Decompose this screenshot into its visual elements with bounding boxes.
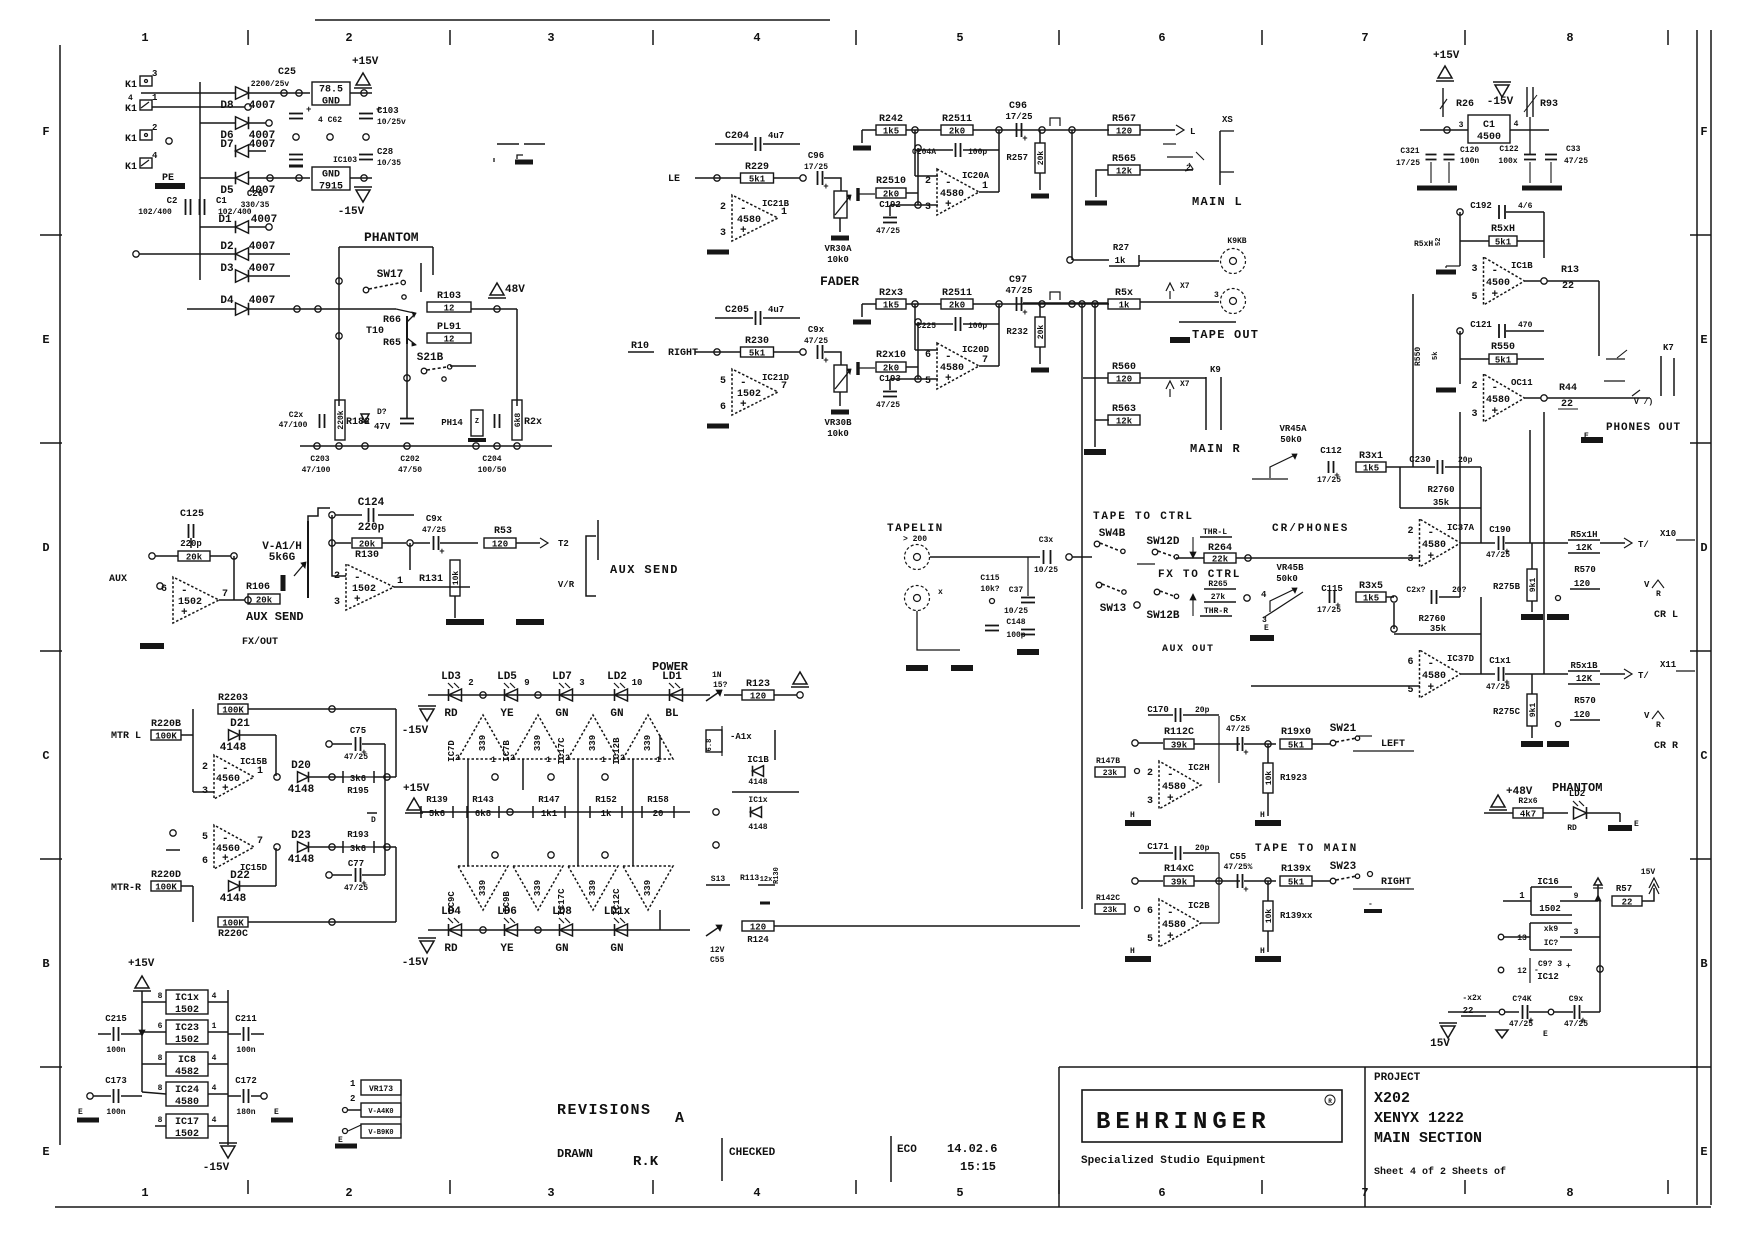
wire c173 w2 bbox=[121, 1095, 142, 1097]
row tick left bbox=[40, 442, 62, 444]
C230 label bbox=[1409, 455, 1431, 465]
svg-text:339: 339 bbox=[533, 735, 543, 751]
svg-text:C: C bbox=[42, 749, 49, 763]
svg-text:R2x10: R2x10 bbox=[876, 350, 906, 361]
resistor R123 bbox=[742, 679, 774, 702]
connector K1 pin 4 bbox=[125, 162, 137, 173]
C28 value bbox=[377, 159, 401, 168]
svg-text:LD5: LD5 bbox=[497, 671, 517, 683]
row tick right bbox=[1690, 650, 1711, 652]
svg-text:220k: 220k bbox=[337, 410, 346, 429]
wire c77 wl bbox=[332, 874, 352, 876]
wire led row bottom bbox=[428, 929, 690, 931]
C190 value bbox=[1486, 551, 1510, 560]
svg-text:C124: C124 bbox=[358, 497, 385, 509]
C205 wires bbox=[715, 317, 800, 319]
wire to fader RIGHT bbox=[824, 352, 841, 365]
rev letter A bbox=[675, 1110, 684, 1127]
resistor R158 bbox=[642, 795, 674, 819]
svg-text:D?: D? bbox=[377, 408, 387, 417]
svg-text:C192: C192 bbox=[1470, 201, 1492, 211]
svg-text:20k: 20k bbox=[256, 596, 273, 606]
svg-text:+: + bbox=[354, 594, 361, 606]
net R10 underline bbox=[628, 351, 654, 353]
IC16 label bbox=[1537, 877, 1559, 887]
resistor R1390 bbox=[1280, 864, 1312, 888]
capacitor C1 bbox=[200, 199, 205, 215]
PHONES OUT label bbox=[1606, 422, 1681, 434]
REVISIONS title bbox=[557, 1102, 652, 1119]
R570a floating bbox=[1570, 565, 1600, 589]
svg-text:15V: 15V bbox=[1430, 1038, 1450, 1050]
gnd ph1 bbox=[1417, 186, 1437, 191]
C62 label bbox=[318, 116, 342, 125]
R2760a part bbox=[1426, 485, 1456, 508]
stack arrows bbox=[139, 1030, 145, 1036]
wire mtr r wire bbox=[181, 885, 193, 887]
svg-text:IC2B: IC2B bbox=[1188, 901, 1210, 911]
-15V br bbox=[1430, 1023, 1457, 1050]
column number 8 bottom bbox=[1566, 1186, 1573, 1200]
gnd stack l bbox=[77, 1118, 99, 1123]
svg-text:7915: 7915 bbox=[319, 182, 343, 193]
resistor R2x6 4k7 bbox=[1513, 808, 1543, 820]
capacitor C36 bbox=[1044, 550, 1051, 564]
svg-text:17/25: 17/25 bbox=[1317, 476, 1341, 485]
wire c172 w2 bbox=[251, 1095, 261, 1097]
svg-text:> 200: > 200 bbox=[903, 535, 927, 544]
svg-text:2: 2 bbox=[345, 1186, 352, 1200]
H lbl 4 bbox=[1130, 947, 1135, 956]
switch SW12D bbox=[1146, 536, 1179, 559]
node rail n6 bbox=[494, 443, 500, 449]
IC16 inverter a bbox=[1519, 887, 1578, 915]
svg-text:6k8: 6k8 bbox=[475, 809, 491, 819]
comparator IC12C bottom bbox=[612, 866, 673, 916]
svg-text:4580: 4580 bbox=[1162, 920, 1186, 931]
wire r139xx top bbox=[1267, 881, 1269, 901]
n in LE bbox=[714, 175, 720, 181]
K1 pin3 box bbox=[140, 69, 157, 86]
svg-text:REVISIONS: REVISIONS bbox=[557, 1102, 652, 1119]
ic2b fb bbox=[1201, 881, 1219, 923]
C26 label bbox=[247, 189, 263, 199]
row tick right bbox=[1690, 858, 1711, 860]
svg-text:R2203: R2203 bbox=[218, 693, 248, 704]
C2 label bbox=[167, 196, 178, 206]
svg-text:L: L bbox=[1190, 127, 1195, 137]
svg-text:2: 2 bbox=[350, 1094, 355, 1104]
svg-text:5k1: 5k1 bbox=[749, 175, 766, 185]
C204 wires bbox=[715, 143, 800, 145]
svg-text:R158: R158 bbox=[647, 795, 669, 805]
C211 label bbox=[235, 1014, 257, 1024]
row letter D left bbox=[42, 541, 49, 555]
svg-text:5k1: 5k1 bbox=[1495, 238, 1512, 248]
svg-text:20p: 20p bbox=[1195, 706, 1210, 715]
wire ld2 drop bbox=[1619, 813, 1621, 822]
connector K1 pin 2 bbox=[125, 134, 137, 145]
resistor R567 bbox=[1108, 114, 1140, 137]
n l2 bbox=[535, 692, 541, 698]
wire c24k w2 bbox=[1554, 1011, 1573, 1013]
gnd pha stem bbox=[1446, 266, 1460, 268]
svg-text:C125: C125 bbox=[180, 509, 204, 520]
wire rfb1 l RIGHT bbox=[862, 303, 876, 305]
wire rv top RIGHT bbox=[1039, 304, 1041, 317]
svg-text:R230: R230 bbox=[745, 336, 769, 347]
wire sw21 in bbox=[1312, 743, 1330, 745]
s21b contact bbox=[442, 377, 446, 381]
diode D21 bbox=[220, 718, 250, 754]
svg-text:X11: X11 bbox=[1660, 660, 1677, 670]
C1 label bbox=[216, 196, 227, 206]
S13 part bbox=[706, 867, 781, 903]
svg-text:1k: 1k bbox=[601, 809, 612, 819]
svg-text:C26: C26 bbox=[247, 189, 263, 199]
net stub lines top bbox=[497, 143, 545, 145]
C9x value bbox=[422, 526, 446, 535]
svg-text:5: 5 bbox=[202, 832, 208, 843]
THR-L net bbox=[1200, 528, 1232, 537]
n c1 bbox=[492, 774, 498, 780]
aux op in bbox=[157, 583, 163, 589]
resistor R105 bbox=[178, 551, 210, 563]
svg-text:R567: R567 bbox=[1112, 114, 1136, 125]
ic pins b bbox=[158, 1022, 217, 1031]
svg-text:6.8: 6.8 bbox=[706, 739, 714, 752]
n in RIGHT bbox=[714, 349, 720, 355]
svg-text:3: 3 bbox=[334, 597, 340, 608]
title divider v2 bbox=[890, 1136, 892, 1182]
pot VR45A bbox=[1252, 424, 1307, 479]
svg-text:K1: K1 bbox=[125, 80, 137, 91]
n lad1 bbox=[507, 809, 513, 815]
svg-text:FX/OUT: FX/OUT bbox=[242, 636, 278, 648]
svg-text:35k: 35k bbox=[1433, 498, 1450, 508]
RCA jack K9KB bbox=[1221, 237, 1247, 274]
svg-text:7: 7 bbox=[222, 589, 228, 600]
R275B label bbox=[1493, 582, 1521, 592]
svg-text:3: 3 bbox=[202, 786, 208, 797]
gnd rfb1 LE bbox=[853, 146, 871, 151]
C25 value bbox=[251, 80, 290, 89]
column tick top bbox=[247, 30, 249, 45]
svg-text:R130: R130 bbox=[355, 550, 379, 561]
gnd vr173 bbox=[335, 1144, 357, 1149]
svg-text:2: 2 bbox=[455, 754, 460, 763]
diode D6 bbox=[220, 117, 275, 142]
n c6 bbox=[602, 852, 608, 858]
wire d2 out bbox=[249, 253, 290, 255]
svg-text:-: - bbox=[354, 572, 361, 584]
svg-text:4580: 4580 bbox=[1486, 395, 1510, 406]
wire aux left vert bbox=[332, 515, 346, 576]
resistor PL91 bbox=[427, 322, 471, 345]
node reg out bbox=[361, 90, 367, 96]
gnd phones bbox=[1581, 437, 1603, 443]
svg-text:22k: 22k bbox=[1212, 555, 1229, 565]
C33 value bbox=[1564, 157, 1588, 166]
svg-text:4148: 4148 bbox=[748, 778, 767, 787]
svg-text:ECO: ECO bbox=[897, 1144, 917, 1156]
PH14 label bbox=[441, 418, 463, 428]
svg-text:+: + bbox=[1492, 406, 1499, 418]
VR label aux bbox=[558, 580, 575, 590]
svg-text:10/25: 10/25 bbox=[1004, 607, 1028, 616]
wire tape in wire bbox=[930, 556, 1040, 558]
wire stack left joins bbox=[142, 1001, 166, 1003]
svg-text:THR-R: THR-R bbox=[1204, 607, 1228, 616]
svg-text:20p: 20p bbox=[1195, 844, 1210, 853]
svg-text:R2760: R2760 bbox=[1427, 485, 1454, 495]
gnd rfb1 RIGHT bbox=[853, 320, 871, 325]
svg-text:47/25: 47/25 bbox=[1005, 286, 1032, 296]
capacitor C75 bbox=[356, 737, 367, 758]
resistor R139 bbox=[421, 795, 453, 819]
FX OUT label bbox=[242, 636, 278, 648]
svg-text:R65: R65 bbox=[383, 338, 401, 349]
n ph box 2 bbox=[1135, 907, 1140, 912]
n lb1 bbox=[480, 927, 486, 933]
diode D20 bbox=[288, 760, 315, 796]
wire phantom bottom rail bbox=[300, 445, 552, 447]
column number 2 top bbox=[345, 31, 352, 45]
svg-text:R3x1: R3x1 bbox=[1359, 451, 1383, 462]
wire r29 w2 bbox=[1505, 1011, 1519, 1013]
fader VR30A body bbox=[834, 191, 851, 218]
E ld2 bbox=[1634, 820, 1639, 829]
column number 5 bottom bbox=[956, 1186, 963, 1200]
svg-text:R550: R550 bbox=[1491, 342, 1515, 353]
wire ic16b inw bbox=[1504, 936, 1530, 938]
column tick bottom bbox=[449, 1180, 451, 1194]
wire tm wire2 bbox=[1194, 743, 1240, 745]
svg-text:-15V: -15V bbox=[402, 957, 429, 969]
svg-text:IC1B: IC1B bbox=[1511, 261, 1533, 271]
IC1x label bbox=[748, 796, 767, 805]
svg-text:D8: D8 bbox=[220, 100, 234, 112]
svg-text:RD: RD bbox=[444, 943, 458, 955]
C77 value bbox=[344, 884, 368, 893]
misc vert bbox=[774, 730, 776, 760]
tp2 bbox=[327, 134, 333, 140]
wire ac d1 bbox=[200, 226, 236, 228]
wire cmp2 out bbox=[522, 759, 524, 790]
svg-text:K1: K1 bbox=[125, 104, 137, 115]
IC37B label bbox=[1447, 654, 1475, 664]
n c2 bbox=[548, 774, 554, 780]
resistor R106 bbox=[246, 582, 280, 606]
gnd ic2h l bbox=[1125, 820, 1151, 826]
wire mtr l wire bbox=[181, 734, 193, 736]
sw23 circle bbox=[1368, 872, 1373, 877]
svg-text:X7: X7 bbox=[1180, 380, 1190, 389]
MAIN R label bbox=[1190, 442, 1241, 456]
wire tm wire1 bbox=[1138, 742, 1163, 744]
svg-text:R2511: R2511 bbox=[942, 288, 972, 299]
jack XS tip arrow bbox=[1176, 125, 1195, 137]
wire sel vert 1 bbox=[1529, 430, 1531, 543]
svg-text:4580: 4580 bbox=[1422, 540, 1446, 551]
C1 value bbox=[218, 208, 252, 217]
sw12d off contact bbox=[1137, 563, 1155, 565]
C173 value bbox=[106, 1108, 125, 1117]
n sq1 RIGHT bbox=[1039, 301, 1045, 307]
svg-text:C96: C96 bbox=[1009, 101, 1027, 112]
svg-text:4500: 4500 bbox=[1486, 278, 1510, 289]
svg-text:V: V bbox=[1644, 580, 1650, 590]
resistor R193 bracket bbox=[343, 830, 374, 854]
C55 label bbox=[1230, 852, 1246, 862]
+15V ph bbox=[1433, 50, 1460, 81]
svg-text:PHANTOM: PHANTOM bbox=[364, 230, 419, 245]
svg-text:1k5: 1k5 bbox=[1363, 464, 1379, 474]
svg-text:2: 2 bbox=[720, 202, 726, 213]
c115t circle bbox=[990, 599, 995, 604]
wire r27 in bbox=[1073, 259, 1109, 261]
IC20A label bbox=[962, 171, 990, 181]
svg-text:47V: 47V bbox=[374, 422, 391, 432]
C215 label bbox=[105, 1014, 127, 1024]
svg-text:10k: 10k bbox=[452, 571, 461, 586]
svg-text:14.02.6: 14.02.6 bbox=[947, 1142, 997, 1156]
svg-text:5: 5 bbox=[956, 1186, 963, 1200]
resistor R152 bbox=[590, 795, 622, 819]
LE input bbox=[668, 174, 680, 185]
svg-text:C211: C211 bbox=[235, 1014, 257, 1024]
wire aux2 out bbox=[394, 586, 470, 588]
svg-text:C1: C1 bbox=[1483, 120, 1495, 131]
svg-text:YE: YE bbox=[500, 943, 514, 955]
svg-text:R3x5: R3x5 bbox=[1359, 581, 1383, 592]
capacitor C37 bbox=[1021, 598, 1035, 603]
mid stub bbox=[166, 849, 180, 851]
resistor R3x1 bbox=[1356, 451, 1386, 474]
wire mtr l vert bbox=[192, 709, 194, 792]
svg-text:-x2x: -x2x bbox=[1462, 994, 1481, 1003]
transistor T10 pair bbox=[396, 309, 416, 346]
gnd vr45 lbl bbox=[1264, 624, 1269, 633]
svg-text:4: 4 bbox=[152, 151, 158, 161]
svg-text:9k1: 9k1 bbox=[1529, 703, 1538, 718]
svg-text:F: F bbox=[42, 125, 49, 139]
wire stack right j3 bbox=[208, 1063, 228, 1065]
wire r560 l bbox=[1083, 377, 1108, 379]
wire aux2 fb top bbox=[409, 543, 411, 570]
svg-text:E: E bbox=[1584, 432, 1589, 441]
svg-text:R1923: R1923 bbox=[1280, 773, 1307, 783]
svg-text:DRAWN: DRAWN bbox=[557, 1147, 593, 1161]
C203 value bbox=[302, 466, 331, 475]
wire r5x out bbox=[1140, 301, 1219, 303]
CHECKED label bbox=[729, 1147, 776, 1159]
svg-text:MAIN SECTION: MAIN SECTION bbox=[1374, 1130, 1482, 1147]
wire rfb row LE bbox=[906, 129, 941, 131]
ic pins c bbox=[158, 1054, 217, 1063]
wire c192b out bbox=[1506, 211, 1544, 213]
wire phb fb l bbox=[1459, 331, 1461, 384]
svg-text:8: 8 bbox=[158, 1116, 163, 1125]
svg-text:120: 120 bbox=[750, 923, 766, 933]
n tape1 bbox=[1066, 554, 1072, 560]
comparator IC9C bottom bbox=[447, 866, 508, 913]
svg-text:X202: X202 bbox=[1374, 1090, 1410, 1107]
wire R out row bbox=[1023, 302, 1108, 304]
svg-text:100n: 100n bbox=[1460, 157, 1479, 166]
wire c75 wr bbox=[362, 743, 385, 745]
C121 label bbox=[1470, 320, 1492, 330]
MAIN L label bbox=[1192, 195, 1243, 209]
row tick right bbox=[1690, 234, 1711, 236]
gnd tape1 bbox=[906, 665, 928, 671]
C204A value bbox=[968, 148, 987, 157]
wire ic16 vert bbox=[1599, 901, 1601, 1012]
svg-text:IC17: IC17 bbox=[175, 1117, 199, 1128]
ic pins a bbox=[158, 992, 217, 1001]
node d6 bbox=[266, 120, 272, 126]
MTR L input bbox=[111, 731, 141, 742]
wire stack right j5 bbox=[208, 1125, 228, 1127]
column number 6 top bbox=[1158, 31, 1165, 45]
svg-text:10: 10 bbox=[632, 678, 643, 688]
border right lines bbox=[1697, 30, 1711, 1205]
pins bbox=[620, 754, 661, 765]
svg-text:R19x0: R19x0 bbox=[1281, 727, 1311, 738]
C191 label bbox=[1489, 656, 1511, 666]
wire d21 vert bbox=[275, 735, 277, 776]
svg-text:V /): V /) bbox=[1634, 398, 1653, 407]
wire L out wire bbox=[1140, 129, 1175, 131]
svg-text:5k6: 5k6 bbox=[429, 809, 445, 819]
wire r2760a lv bbox=[1399, 467, 1401, 508]
gnd r139xx bbox=[1255, 956, 1281, 962]
capacitor C124 bbox=[358, 497, 385, 534]
wire bus down B bbox=[1094, 304, 1096, 447]
node a1 bbox=[281, 90, 287, 96]
svg-text:IC37D: IC37D bbox=[1447, 654, 1475, 664]
svg-text:C202: C202 bbox=[400, 455, 419, 464]
n rg RIGHT bbox=[915, 319, 921, 325]
R519 inline bbox=[1568, 530, 1600, 553]
wire aux op out bbox=[219, 599, 245, 601]
svg-text:C204: C204 bbox=[482, 455, 501, 464]
svg-text:LD2: LD2 bbox=[1569, 789, 1585, 799]
C230 value bbox=[1458, 456, 1473, 465]
svg-text:LD6: LD6 bbox=[497, 906, 517, 918]
svg-text:C190: C190 bbox=[1489, 525, 1511, 535]
svg-text:+: + bbox=[1428, 682, 1435, 694]
svg-text:3k6: 3k6 bbox=[350, 774, 366, 784]
svg-text:C28: C28 bbox=[377, 147, 393, 157]
R232 label bbox=[1006, 327, 1028, 337]
wire c172 wires bbox=[228, 1095, 241, 1097]
+15V ladder bbox=[403, 783, 430, 813]
n c2xx bbox=[1391, 596, 1397, 602]
title divider v1 bbox=[721, 1138, 723, 1181]
column number 8 top bbox=[1566, 31, 1573, 45]
wire pha out bbox=[1525, 280, 1541, 282]
svg-text:C115: C115 bbox=[1321, 584, 1343, 594]
wire cmp1 vert bbox=[467, 759, 469, 866]
capacitor C190 bbox=[1499, 536, 1510, 557]
wire pha fb r bbox=[1517, 240, 1544, 242]
svg-text:R193: R193 bbox=[347, 830, 369, 840]
op-amp IC2H bbox=[1147, 761, 1201, 809]
wire r2760b wire bbox=[1393, 603, 1395, 629]
svg-text:R: R bbox=[1656, 590, 1661, 599]
T10 collector lbl bbox=[383, 315, 401, 326]
